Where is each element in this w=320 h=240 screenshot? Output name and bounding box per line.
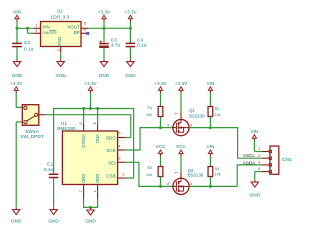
svg-text:VIN: VIN: [206, 144, 214, 149]
svg-text:GND: GND: [250, 193, 261, 198]
svg-text:U1: U1: [61, 121, 67, 127]
svg-text:4: 4: [258, 167, 260, 171]
svg-text:3: 3: [35, 29, 37, 33]
svg-text:0.1u: 0.1u: [24, 46, 34, 52]
svg-text:0.1u: 0.1u: [137, 42, 147, 48]
svg-text:C2: C2: [24, 40, 30, 46]
svg-text:SW1A: SW1A: [25, 129, 39, 135]
svg-text:1: 1: [174, 113, 178, 115]
svg-text:2: 2: [258, 154, 260, 158]
svg-text:2: 2: [57, 49, 61, 51]
svg-text:VIN: VIN: [250, 129, 258, 134]
svg-text:GND: GND: [11, 219, 22, 224]
svg-text:SW_DPDT: SW_DPDT: [20, 134, 44, 140]
svg-text:1: 1: [258, 147, 260, 151]
svg-text:GND: GND: [99, 73, 110, 78]
svg-text:C1: C1: [47, 161, 53, 167]
svg-text:4: 4: [118, 144, 120, 148]
svg-text:R1: R1: [147, 106, 152, 110]
svg-text:BSS138: BSS138: [188, 173, 204, 178]
svg-text:SDO: SDO: [106, 136, 116, 141]
svg-text:2: 2: [122, 173, 124, 177]
svg-text:3: 3: [190, 182, 192, 186]
svg-text:5: 5: [118, 132, 120, 136]
svg-text:GND: GND: [57, 37, 62, 47]
svg-text:+3.3V: +3.3V: [84, 81, 97, 86]
svg-text:Q1: Q1: [189, 108, 195, 113]
svg-text:R3: R3: [215, 107, 220, 111]
svg-text:GND: GND: [125, 73, 136, 78]
svg-text:ASDA: ASDA: [243, 160, 257, 165]
svg-text:VIN: VIN: [13, 9, 21, 14]
svg-text:CSB: CSB: [106, 173, 115, 178]
svg-text:10k: 10k: [146, 173, 152, 177]
svg-text:10k: 10k: [146, 113, 152, 117]
svg-text:3: 3: [190, 123, 192, 127]
svg-text:VCC: VCC: [156, 144, 167, 149]
svg-text:BSS138: BSS138: [189, 113, 205, 118]
svg-text:ASCL: ASCL: [243, 153, 256, 158]
svg-text:10k: 10k: [215, 113, 221, 117]
svg-text:VDDIO: VDDIO: [81, 134, 86, 148]
svg-text:R2: R2: [147, 166, 152, 170]
svg-text:GND: GND: [55, 73, 66, 78]
svg-text:SDI: SDI: [108, 160, 116, 165]
svg-text:4: 4: [83, 28, 85, 32]
svg-text:1: 1: [174, 172, 178, 174]
svg-text:0.1u: 0.1u: [44, 167, 54, 173]
svg-text:GND: GND: [95, 174, 100, 184]
svg-text:GND: GND: [48, 219, 59, 224]
svg-text:GND: GND: [81, 174, 86, 184]
svg-text:2: 2: [167, 123, 169, 127]
svg-text:10k: 10k: [215, 173, 221, 177]
svg-text:3: 3: [118, 157, 120, 161]
svg-text:U2: U2: [57, 9, 63, 14]
svg-text:VIN: VIN: [206, 81, 214, 86]
svg-text:1: 1: [35, 23, 37, 27]
svg-text:3: 3: [258, 161, 260, 165]
svg-text:BP: BP: [74, 30, 80, 35]
svg-text:GND: GND: [85, 219, 96, 224]
svg-text:BME280: BME280: [57, 126, 76, 132]
svg-text:8: 8: [93, 122, 97, 124]
svg-text:+3.3V: +3.3V: [124, 9, 137, 14]
svg-text:+3.3V: +3.3V: [175, 81, 188, 86]
svg-text:+3.3V: +3.3V: [154, 81, 167, 86]
svg-text:CN1: CN1: [282, 157, 292, 163]
svg-text:SCK: SCK: [106, 148, 116, 153]
svg-text:VDD: VDD: [95, 134, 100, 143]
svg-text:+3.3V: +3.3V: [10, 81, 23, 86]
svg-text:6: 6: [79, 122, 83, 124]
svg-text:LDO_3.3: LDO_3.3: [51, 15, 70, 20]
svg-text:GND: GND: [12, 73, 23, 78]
svg-text:VCC: VCC: [176, 144, 187, 149]
svg-text:7: 7: [92, 190, 96, 192]
svg-text:5: 5: [84, 22, 86, 26]
svg-text:R4: R4: [215, 167, 220, 171]
svg-text:2: 2: [167, 182, 169, 186]
svg-text:1: 1: [78, 190, 82, 192]
svg-text:4.7u: 4.7u: [111, 42, 121, 48]
svg-text:+3.3V: +3.3V: [98, 9, 111, 14]
